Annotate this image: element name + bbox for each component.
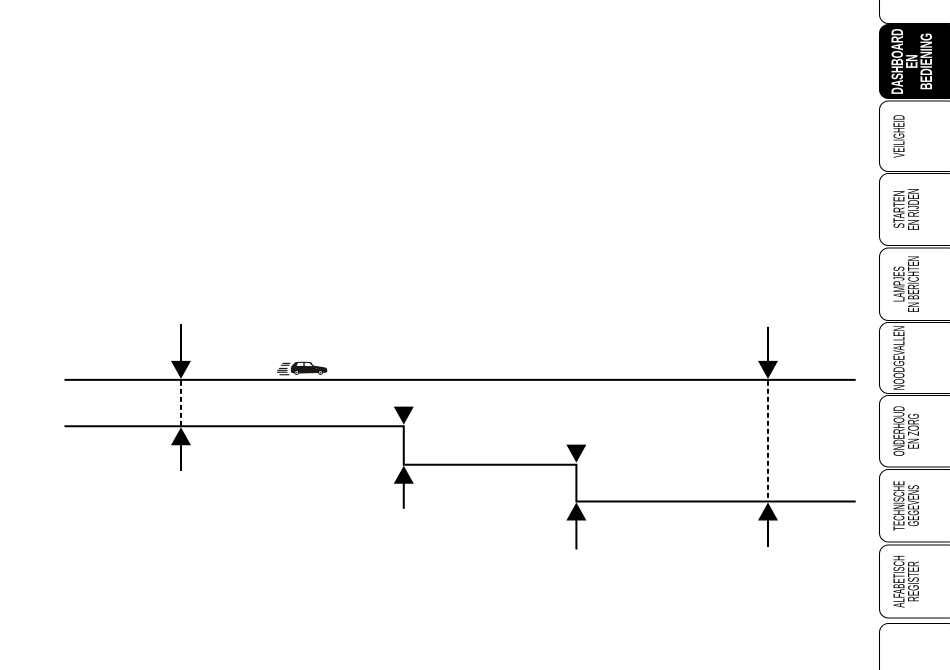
tab VEILIGHEID — [880, 101, 950, 172]
svg-text:NOODGEVALLEN: NOODGEVALLEN — [891, 326, 908, 391]
speed line 5 — [277, 371, 287, 373]
arrow down at x=576.4 — [566, 445, 586, 463]
tab TECHNISCHE GEGEVENS — [880, 470, 950, 543]
svg-text:GEGEVENS: GEGEVENS — [906, 485, 923, 527]
staircase line B-C-D — [65, 426, 856, 501]
line A (top road line) — [65, 379, 856, 381]
svg-text:BEDIENING: BEDIENING — [917, 33, 936, 90]
car icon — [291, 362, 327, 375]
svg-text:EN BERICHTEN: EN BERICHTEN — [906, 256, 923, 313]
rear window — [297, 363, 304, 366]
front window — [305, 363, 312, 366]
arrow up at x=403.8 — [394, 466, 414, 509]
rear wheel — [294, 370, 299, 375]
speed line 1 — [283, 362, 291, 364]
tab STARTEN EN RIJDEN — [880, 174, 950, 246]
dashed line at x=768 — [767, 381, 769, 501]
tab NOODGEVALLEN — [880, 323, 950, 394]
svg-text:REGISTER: REGISTER — [906, 561, 923, 602]
rear light dot — [291, 366, 294, 369]
arrow down with stem at x=181 — [171, 324, 191, 379]
tab DASHBOARD EN BEDIENING (active) — [880, 25, 950, 99]
tab partial bottom — [880, 624, 950, 670]
svg-text:EN RIJDEN: EN RIJDEN — [906, 189, 923, 231]
tab ALFABETISCH REGISTER — [880, 545, 950, 618]
tab partial top — [880, 0, 950, 24]
svg-text:VEILIGHEID: VEILIGHEID — [891, 115, 908, 158]
arrow up at x=768 — [758, 503, 778, 548]
speed line 2 — [281, 364, 290, 366]
front wheel — [318, 370, 323, 375]
arrow down with stem at x=768 — [758, 327, 778, 379]
speed line 4 — [277, 369, 287, 371]
door handle dot — [315, 367, 318, 370]
tab ONDERHOUD EN ZORG — [880, 396, 950, 468]
speed line 3 — [279, 367, 288, 369]
speed line 6 — [280, 374, 290, 376]
arrow down at x=403.8 — [394, 407, 414, 425]
arrow up at x=576.4 — [566, 503, 586, 550]
svg-text:EN ZORG: EN ZORG — [906, 413, 923, 449]
tab LAMPJES EN BERICHTEN — [880, 248, 950, 321]
arrow up at x=181 — [171, 427, 191, 471]
dashed line at x=181 — [180, 381, 182, 425]
